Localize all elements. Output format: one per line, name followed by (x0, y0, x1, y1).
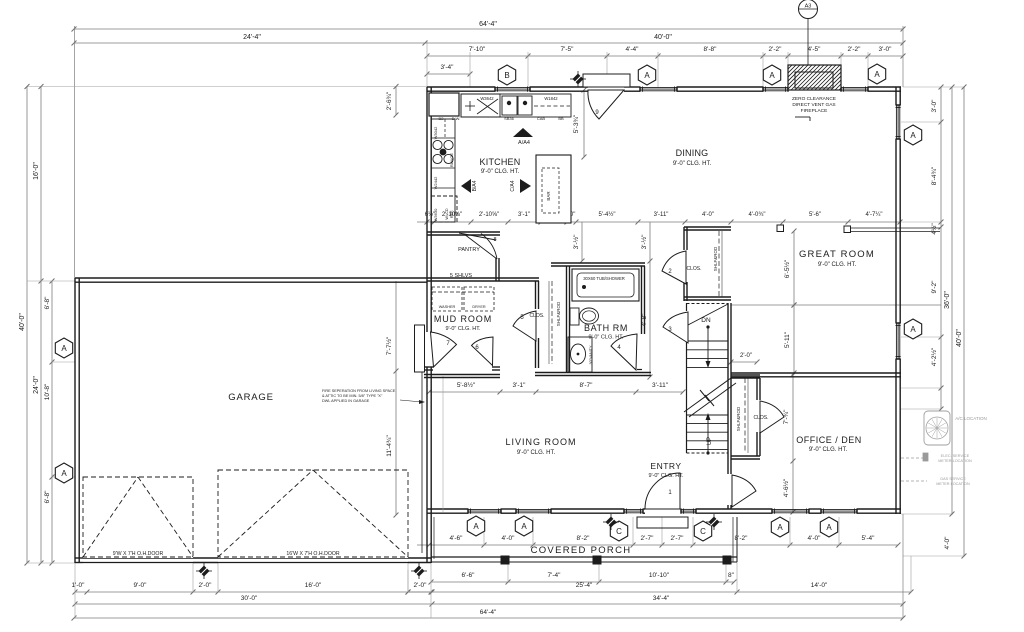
svg-text:C: C (700, 527, 706, 536)
wall: stairwell left x686 (686, 303, 688, 311)
svg-text:DIRECT VENT GAS: DIRECT VENT GAS (792, 102, 835, 108)
wall: bath right x641 (641, 266, 643, 334)
stairs: DN arrow (706, 325, 709, 328)
svg-text:A3: A3 (805, 4, 812, 10)
svg-text:DINING: DINING (676, 148, 709, 158)
door 2: dining closet (662, 251, 686, 284)
wall: mudroom stoop (415, 325, 425, 372)
dim line: row y604 (75, 603, 903, 605)
dim line: right sub (940, 87, 942, 409)
wall: garage bottom (75, 557, 83, 559)
wall: office/great divider y373 (731, 372, 901, 374)
svg-text:W2442: W2442 (433, 176, 438, 189)
svg-text:64'-4": 64'-4" (479, 21, 497, 28)
svg-text:40'-0": 40'-0" (654, 34, 672, 41)
dim line: 2'-6 3/4" kitchen offset (395, 87, 397, 116)
dim line: 5'-3 3/4" kitchen (583, 90, 585, 157)
svg-text:9'-0" CLG. HT.: 9'-0" CLG. HT. (809, 447, 848, 453)
svg-text:RANGE: RANGE (449, 153, 454, 168)
svg-text:11'-4¾": 11'-4¾" (386, 435, 393, 457)
dim line: 3'-1/2" left (581, 222, 583, 261)
svg-text:3'-½": 3'-½" (572, 234, 580, 249)
window: living bottom 3 (624, 508, 643, 510)
window marker hexagon C at living win 4 (694, 521, 711, 541)
ext lines left (27, 280, 75, 282)
svg-text:16'-0": 16'-0" (305, 582, 322, 589)
svg-text:4'-4": 4'-4" (626, 46, 640, 53)
dim line: left sub (51, 281, 53, 563)
svg-text:W3630: W3630 (433, 208, 438, 221)
kitchen: sink bowls (502, 96, 517, 115)
svg-text:6'-6": 6'-6" (462, 572, 476, 579)
dim line: garage 11'-4 3/4" (395, 281, 397, 515)
mudroom: dryer box (464, 287, 494, 311)
kitchen: arrow A/A4 (513, 128, 533, 137)
section marker A3: circle (799, 0, 818, 19)
window marker hexagon A at living win 1 (467, 516, 484, 536)
svg-text:DWL APPLIED IN GARAGE: DWL APPLIED IN GARAGE (322, 399, 370, 403)
svg-text:3'-1": 3'-1" (513, 382, 527, 389)
svg-text:BAR: BAR (546, 191, 551, 201)
svg-text:16'-0": 16'-0" (33, 162, 40, 180)
svg-text:ENTRY: ENTRY (650, 461, 681, 471)
post: great room left (777, 225, 784, 232)
svg-text:A: A (777, 523, 783, 532)
window: office bottom 2 (821, 508, 857, 510)
wall: bath top y263 (551, 262, 645, 264)
svg-text:COVERED PORCH: COVERED PORCH (531, 545, 632, 556)
window marker hexagon A at office win 2 (820, 517, 837, 537)
svg-text:10'-10": 10'-10" (649, 572, 670, 579)
stairs: UP arrow (706, 451, 709, 454)
svg-text:5 SHLVS: 5 SHLVS (450, 273, 473, 279)
stairs: outline (687, 303, 729, 305)
door 9: swing (588, 90, 624, 119)
dim line: bottom row y545 (417, 544, 898, 546)
svg-text:5'-11": 5'-11" (784, 331, 791, 348)
wall: stairwell right x728 (727, 303, 729, 474)
window: great room left of fireplace (763, 86, 788, 88)
svg-text:D.W.: D.W. (452, 116, 461, 121)
bath: tub (572, 269, 639, 301)
dim line: row y592 (408, 591, 911, 593)
porch: left edge (430, 517, 432, 562)
porch: right edge (732, 517, 734, 562)
svg-text:W3042: W3042 (433, 126, 438, 139)
ext line: house top to left dims (27, 86, 427, 88)
window: right wall upper (895, 105, 897, 139)
entry stoop (637, 517, 688, 528)
dim line: bath row y392 (429, 391, 683, 393)
extension lines top (74, 26, 76, 278)
svg-text:SB36: SB36 (504, 116, 515, 121)
svg-text:2'-10⅝": 2'-10⅝" (479, 212, 499, 218)
svg-text:PANTRY: PANTRY (458, 247, 480, 253)
window: right wall lower (895, 323, 897, 359)
window: dining top (640, 86, 677, 88)
wall: left exterior x427 (426, 87, 428, 332)
door 3: hall-stair (663, 312, 688, 343)
kitchen: corner box (429, 93, 459, 116)
svg-text:C: C (616, 527, 622, 536)
svg-text:10'-8": 10'-8" (44, 383, 51, 400)
dim line: garage doors row y592 (75, 591, 432, 593)
dim line: 24'-4" / 40'-0" second top (74, 42, 903, 44)
wall: mudroom/pantry top (garage top shared) (427, 231, 500, 233)
svg-text:A: A (874, 70, 880, 79)
svg-text:ZERO CLEARANCE: ZERO CLEARANCE (792, 96, 836, 102)
dim line: left 16'/24' (40, 87, 42, 564)
svg-text:2'-7": 2'-7" (671, 535, 685, 542)
svg-text:REF.: REF. (450, 210, 454, 218)
window marker hexagon A at office win 1 (771, 517, 788, 537)
svg-text:5'-8½": 5'-8½" (457, 381, 476, 389)
svg-text:9'-2": 9'-2" (931, 280, 938, 294)
svg-text:DN: DN (701, 317, 711, 324)
svg-text:2'-6¾": 2'-6¾" (386, 91, 393, 110)
window marker hexagon A at great rm win L (763, 65, 780, 85)
svg-text:A: A (473, 522, 479, 531)
svg-text:3'-0": 3'-0" (931, 99, 938, 113)
svg-text:B/A4: B/A4 (472, 180, 478, 191)
dim line: office vert 793 (792, 375, 794, 512)
wall: garage top (75, 277, 427, 279)
svg-text:4½": 4½" (930, 223, 938, 235)
svg-text:36'-0": 36'-0" (944, 291, 951, 309)
svg-text:BATH RM: BATH RM (584, 323, 628, 333)
svg-text:METER LOCATION: METER LOCATION (936, 482, 970, 486)
svg-text:24'-0": 24'-0" (33, 376, 40, 394)
svg-text:30'-0": 30'-0" (241, 595, 258, 602)
fireplace: gas line (795, 116, 810, 118)
bath: toilet (570, 308, 579, 325)
svg-text:24'-4": 24'-4" (243, 34, 261, 41)
svg-text:8'-2": 8'-2" (577, 535, 591, 542)
door 1: entry front door (645, 473, 680, 509)
svg-text:2'-0": 2'-0" (199, 582, 213, 589)
svg-text:64'-4": 64'-4" (480, 609, 497, 616)
dim line: 3'-4" row4 (427, 73, 470, 75)
svg-text:A: A (644, 71, 650, 80)
dim line: overall 64'-4" top (74, 28, 903, 30)
svg-text:SHLF&ROD: SHLF&ROD (556, 301, 561, 326)
svg-text:7'-10": 7'-10" (469, 46, 486, 53)
electrical symbol at garage 2 (411, 563, 427, 579)
dim line: 2'-0" stairs (731, 361, 757, 363)
svg-text:8'-8": 8'-8" (704, 46, 718, 53)
svg-text:4'-6½": 4'-6½" (782, 478, 790, 497)
window marker hexagon A at great rm win R (868, 64, 885, 84)
wall: garage fire wall inner line (421, 368, 423, 553)
window marker hexagon C at living win 3 (610, 521, 627, 541)
svg-text:25'-4": 25'-4" (576, 582, 593, 589)
svg-text:40'-0": 40'-0" (956, 329, 963, 347)
svg-text:GREAT ROOM: GREAT ROOM (799, 249, 875, 260)
kitchen: fridge box (431, 196, 457, 222)
svg-text:6'-5½": 6'-5½" (783, 259, 791, 278)
svg-text:A: A (61, 344, 67, 353)
electrical symbol at porch R (706, 514, 722, 530)
svg-text:GARAGE: GARAGE (228, 392, 273, 403)
svg-text:SHLF&ROD: SHLF&ROD (736, 406, 741, 431)
svg-text:3'-11": 3'-11" (652, 382, 669, 389)
svg-text:2'-2": 2'-2" (769, 46, 783, 53)
svg-text:3'-11": 3'-11" (654, 212, 669, 218)
garage door 2: dashed opening (218, 470, 408, 557)
ext line: living room left witness (442, 376, 444, 512)
svg-text:1'-0": 1'-0" (72, 582, 86, 589)
kitchen: left counter outline (431, 119, 455, 222)
svg-text:B2: B2 (439, 116, 445, 121)
svg-text:4'-0": 4'-0" (702, 212, 714, 218)
stairs: treads lower (687, 414, 728, 416)
svg-text:ELEC. SERVICE: ELEC. SERVICE (941, 454, 970, 458)
wall: right exterior x896 (895, 87, 897, 105)
svg-text:4'-2½": 4'-2½" (930, 347, 938, 366)
svg-text:4'-0": 4'-0" (944, 536, 951, 550)
dim line: great room vert 794 (793, 231, 795, 373)
svg-text:9'-0" CLG. HT.: 9'-0" CLG. HT. (445, 326, 481, 332)
svg-text:GAS SERVICE: GAS SERVICE (940, 477, 966, 481)
svg-text:FIRE SEPERATION FROM LIVING SP: FIRE SEPERATION FROM LIVING SPACE (322, 389, 396, 393)
porch post 2 (593, 556, 601, 564)
svg-text:8'-4¾": 8'-4¾" (931, 166, 938, 185)
wall: mudroom/living divider y374.5 (424, 374, 500, 376)
svg-text:DRYER: DRYER (472, 305, 485, 309)
kitchen: arrow C/A4 (520, 179, 531, 193)
svg-text:9'-0" CLG. HT.: 9'-0" CLG. HT. (673, 161, 712, 167)
wall: bottom exterior y509 (427, 508, 468, 510)
svg-text:6'-8": 6'-8" (44, 490, 51, 504)
section marker A3: line (807, 18, 809, 65)
stairs: break lines (684, 378, 731, 412)
bath: vanity (568, 337, 592, 372)
ext stubs porch row (507, 562, 509, 582)
dim line: top row3 (427, 55, 903, 57)
kitchen: range burners (433, 140, 442, 149)
wall: pantry right (495, 258, 497, 281)
svg-text:9'-0" CLG. HT.: 9'-0" CLG. HT. (648, 473, 684, 479)
svg-text:BB: BB (558, 116, 564, 121)
svg-text:7'-5": 7'-5" (561, 46, 575, 53)
svg-text:30"VANITY: 30"VANITY (589, 345, 593, 364)
svg-text:9'-0" CLG. HT.: 9'-0" CLG. HT. (481, 169, 520, 175)
svg-text:CLOS.: CLOS. (753, 415, 768, 421)
wall: closet2 right x757 (756, 378, 758, 400)
svg-text:W3642: W3642 (480, 96, 494, 101)
garage door 1: dashed opening (83, 477, 193, 557)
svg-text:& ATTIC TO BE MIN. 5/8" TYPE ": & ATTIC TO BE MIN. 5/8" TYPE "X" (322, 394, 383, 398)
svg-text:8": 8" (728, 572, 735, 579)
svg-text:16'W X 7'H O.H.DOOR: 16'W X 7'H O.H.DOOR (286, 551, 340, 557)
door 6: mudroom-living (472, 337, 494, 366)
svg-text:3'-0": 3'-0" (879, 46, 893, 53)
pantry: notch corner (459, 233, 496, 240)
svg-text:4'-7¼": 4'-7¼" (866, 212, 883, 218)
dim line: middle row y222 (417, 221, 900, 223)
door: entry-office (732, 475, 756, 507)
svg-text:2'-2": 2'-2" (848, 46, 862, 53)
svg-text:9'-0": 9'-0" (134, 582, 148, 589)
svg-text:C/A4: C/A4 (510, 180, 516, 191)
door 5: coat closet (513, 311, 536, 341)
door 4: bath (611, 334, 637, 370)
dim line: porch row y582 (431, 581, 734, 583)
porch: bottom edge (431, 556, 737, 558)
svg-text:WASHER: WASHER (439, 305, 456, 309)
svg-text:MUD ROOM: MUD ROOM (434, 314, 492, 324)
wall: pantry bottom / mudroom top (427, 277, 539, 279)
AC unit (924, 411, 950, 445)
svg-text:4'-5": 4'-5" (808, 46, 822, 53)
window: office bottom 1 (772, 508, 809, 510)
svg-text:3'-1": 3'-1" (518, 212, 530, 218)
door 9: dining exterior door leaf (583, 74, 630, 87)
svg-text:5'-3¾": 5'-3¾" (573, 114, 580, 133)
svg-text:9'-0" CLG. HT.: 9'-0" CLG. HT. (517, 450, 556, 456)
svg-text:UP: UP (707, 437, 713, 445)
svg-text:4'-6": 4'-6" (450, 535, 464, 542)
svg-text:KITCHEN: KITCHEN (480, 157, 521, 167)
wall: closet1 right / bath left x566 (566, 266, 568, 372)
svg-text:4'-0¾": 4'-0¾" (749, 212, 766, 218)
svg-text:CLOS.: CLOS. (529, 313, 544, 319)
svg-text:A: A (910, 325, 916, 334)
svg-text:3'-4": 3'-4" (441, 64, 455, 71)
kitchen: arrow B/A4 (461, 179, 471, 193)
door: office closet (760, 401, 784, 433)
post: great room right (844, 226, 851, 233)
svg-text:6'-8": 6'-8" (44, 296, 51, 310)
svg-text:SHLF&ROD: SHLF&ROD (713, 246, 718, 271)
svg-text:14'-0": 14'-0" (811, 582, 828, 589)
svg-text:8'-7": 8'-7" (580, 382, 594, 389)
svg-text:A: A (769, 71, 775, 80)
kitchen: island BAR (536, 155, 571, 223)
kitchen: left cab divider (431, 137, 455, 139)
window marker hexagon A at garage left upper (55, 338, 72, 358)
ext lines bottom (74, 563, 76, 618)
dim line: right 36'-0" (951, 87, 953, 514)
window: great room right of fireplace (841, 86, 868, 88)
dim line: right 40'-0" (963, 87, 965, 556)
svg-text:A/C LOCATION: A/C LOCATION (955, 416, 986, 421)
svg-text:A: A (910, 131, 916, 140)
window marker hexagon B at kitchen window (498, 65, 515, 85)
svg-text:40'-0": 40'-0" (19, 313, 26, 331)
electrical symbol at garage 1 (196, 563, 212, 579)
svg-text:5'-4": 5'-4" (862, 535, 876, 542)
stairs: DN diagonal (688, 304, 728, 325)
closet3: shelf&rod dashes (718, 231, 720, 297)
window marker hexagon A at garage left lower (55, 463, 72, 483)
dim line: bath right vert (649, 222, 651, 377)
ext stubs bottom row (483, 517, 485, 545)
window marker hexagon A at living win 2 (515, 516, 532, 536)
kitchen: X-cabinet (461, 94, 500, 117)
svg-text:2'-7": 2'-7" (641, 535, 655, 542)
svg-text:B: B (504, 71, 509, 80)
wall: closet1 left x535 (535, 281, 537, 309)
stairs: treads upper (687, 340, 728, 342)
wall: top exterior (dining/great) (427, 86, 495, 88)
door 8: pantry (464, 234, 497, 259)
window: kitchen sink top (495, 86, 530, 88)
window marker hexagon A at dining window (638, 65, 655, 85)
closet1: shelf&rod line (551, 281, 553, 364)
svg-text:LIVING ROOM: LIVING ROOM (505, 437, 576, 447)
window marker hexagon A at right wall upper (904, 125, 921, 145)
svg-text:3'-½": 3'-½" (640, 234, 648, 249)
wall: mudroom bottom y367 (424, 366, 433, 368)
svg-text:FIREPLACE: FIREPLACE (801, 108, 828, 114)
wall: closet2 bottom y456 (731, 455, 760, 457)
svg-text:2'-0": 2'-0" (740, 353, 752, 359)
window marker hexagon A at right wall lower (904, 319, 921, 339)
svg-text:4'-0": 4'-0" (808, 535, 822, 542)
mudroom: shelf dash (432, 291, 494, 293)
electrical symbol at porch L (603, 514, 619, 530)
svg-text:CLOS.: CLOS. (686, 266, 701, 272)
porch post 3 (723, 556, 731, 564)
dim line: great room horiz y305 (731, 304, 941, 306)
svg-text:2'-0": 2'-0" (414, 582, 428, 589)
closet2: shelf&rod dashes (744, 378, 746, 453)
svg-text:5'-6": 5'-6" (809, 212, 821, 218)
svg-text:METER LOCATION: METER LOCATION (938, 459, 972, 463)
dim line: left 40'-0" (26, 87, 28, 564)
svg-text:A: A (826, 523, 832, 532)
svg-text:A: A (521, 522, 527, 531)
mudroom: washer box (432, 287, 462, 311)
svg-text:9'-0" CLG. HT.: 9'-0" CLG. HT. (588, 335, 624, 341)
window: living bottom 4 (681, 508, 696, 510)
svg-text:7'-4": 7'-4" (548, 572, 562, 579)
wall: garage left (74, 278, 76, 563)
svg-text:A: A (61, 469, 67, 478)
wall: closet2 top y375 (731, 374, 760, 376)
beam: great room (850, 227, 940, 229)
svg-text:OFFICE / DEN: OFFICE / DEN (796, 435, 862, 445)
svg-text:34'-4": 34'-4" (653, 595, 670, 602)
window: living bottom 1 (468, 508, 501, 510)
svg-text:5'-4½": 5'-4½" (599, 211, 616, 218)
wall: bath/living divider y372 (535, 372, 651, 374)
svg-text:4'-0": 4'-0" (502, 535, 516, 542)
kitchen: top counter outline (461, 94, 571, 117)
svg-text:9'-0" CLG. HT.: 9'-0" CLG. HT. (818, 262, 857, 268)
window: living bottom 2 (516, 508, 551, 510)
svg-text:W1842: W1842 (544, 96, 558, 101)
porch post 1 (501, 556, 509, 564)
svg-text:A/A4: A/A4 (518, 140, 530, 146)
svg-text:CAB: CAB (537, 116, 546, 121)
kitchen: right cab dashes (534, 105, 570, 107)
svg-text:9'W X 7'H O.H.DOOR: 9'W X 7'H O.H.DOOR (113, 551, 164, 557)
svg-text:7'-7½": 7'-7½" (385, 336, 393, 355)
door 7: garage-mudroom (431, 332, 457, 367)
wall: closet1 dining walls (684, 226, 731, 228)
dim line: bottom 64'-4" (74, 617, 903, 619)
svg-text:30X60 TUB/SHOWER: 30X60 TUB/SHOWER (583, 276, 625, 281)
svg-text:W/ CD: W/ CD (445, 208, 449, 219)
door symbol at dining door (570, 71, 586, 87)
ext lines right top (903, 86, 965, 88)
